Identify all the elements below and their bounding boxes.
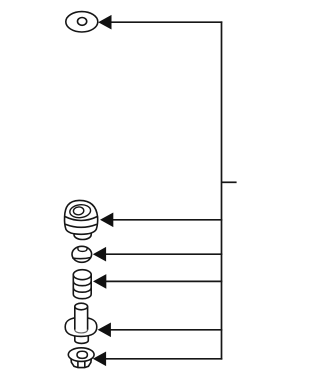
part 6 nut hole xyxy=(77,351,87,358)
part 6 nut hex body xyxy=(71,356,92,368)
part 1 washer outer xyxy=(66,12,98,32)
part 2 bushing top inner ring xyxy=(73,206,84,215)
arrowhead to bushing xyxy=(100,213,113,228)
part 2 bushing shoulder curve upper xyxy=(65,216,98,220)
part 5 bolt bottom lip xyxy=(75,332,89,343)
leader line to flange nut xyxy=(104,358,222,360)
arrowhead to flange nut xyxy=(93,352,106,367)
part 1 washer hole xyxy=(78,18,87,26)
arrowhead to cup retainer xyxy=(93,247,106,262)
leader line to washer xyxy=(109,21,222,23)
part 5 bolt stud bottom arc xyxy=(75,330,88,333)
arrowhead to washer xyxy=(98,15,111,30)
arrowhead to stud bolt xyxy=(98,323,111,338)
part 5 bolt ball body xyxy=(65,317,97,336)
part 3 cup retainer hole xyxy=(78,247,87,251)
stub tick on trunk xyxy=(222,181,237,183)
part 6 nut facet line left xyxy=(77,361,79,367)
arrowhead to spacer sleeve xyxy=(93,274,106,289)
part 2 bushing body xyxy=(65,200,98,234)
part 2 bushing lower lip xyxy=(74,227,91,240)
part 6 nut facet line right xyxy=(84,361,86,367)
leader line to bushing xyxy=(111,219,222,221)
part 4 spacer ring arc 2 xyxy=(73,288,91,293)
part 5 bolt stud top ellipse xyxy=(75,303,88,310)
part 5 bolt stud mask xyxy=(75,307,88,330)
part 2 bushing top outer ring xyxy=(69,204,91,219)
part 3 cup retainer chord line xyxy=(72,257,91,258)
part 5 bolt stud right side xyxy=(87,307,89,330)
leader line to cup retainer xyxy=(104,253,222,255)
part 4 spacer sleeve body xyxy=(73,275,91,299)
leader trunk vertical line xyxy=(221,21,223,359)
part 4 spacer ring arc 1 xyxy=(73,281,91,286)
part 5 bolt stud left side xyxy=(74,307,76,330)
leader line to spacer sleeve xyxy=(104,280,222,282)
part 3 cup retainer outer xyxy=(72,246,92,262)
part 6 nut flange xyxy=(68,348,94,362)
part 4 spacer top ellipse xyxy=(73,270,91,280)
part 2 bushing shoulder curve lower xyxy=(65,224,97,227)
leader line to stud bolt xyxy=(109,329,222,331)
